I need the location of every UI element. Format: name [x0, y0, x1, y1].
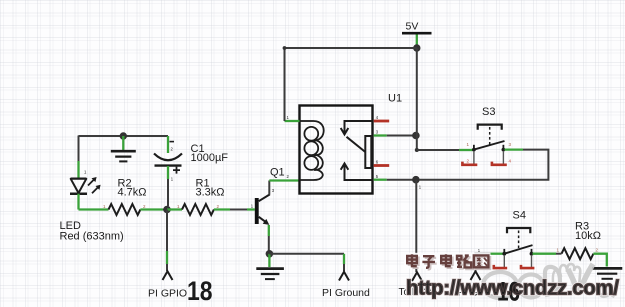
S4 unused red pin right: [521, 255, 534, 268]
node C junction dot: [412, 132, 420, 140]
relay pin number specks: [84, 115, 481, 253]
relay U1 NO contact arrow: [341, 163, 373, 180]
relay U1 NC contact arrow: [341, 121, 373, 134]
svg-text:4.7kΩ: 4.7kΩ: [118, 187, 147, 199]
ground G3: [592, 268, 622, 278]
LED D1: [70, 177, 101, 194]
wire relay common top to node C: [387, 135, 413, 137]
ground G1 stub: [122, 136, 124, 150]
capacitor C1: [154, 142, 182, 174]
wire C1 top: [167, 136, 169, 153]
S4 label: [513, 209, 526, 221]
watermark CJK text 电子电路网: [407, 254, 488, 268]
R1 label: [196, 178, 225, 199]
pin To Pi 3V: [412, 272, 422, 281]
R1 pin numbers: [177, 204, 220, 209]
svg-text:1: 1: [103, 204, 106, 209]
wire node D to To Pi 3V pin: [415, 180, 417, 272]
switch S3: [472, 125, 505, 152]
svg-text:1: 1: [287, 115, 290, 120]
resistor R1: [182, 204, 214, 215]
node dot top rail / ground junction: [120, 132, 127, 139]
watermark URL http://www.cndzz.com/: [406, 277, 619, 300]
S3 label: [482, 106, 495, 118]
relay pin red stub NO: [374, 164, 390, 167]
svg-text:1: 1: [478, 248, 481, 253]
svg-text:1: 1: [251, 204, 254, 209]
wire C1 bottom: [167, 166, 169, 206]
PI GPIO 18 labels: [148, 276, 213, 306]
svg-text:Q1: Q1: [270, 167, 285, 179]
svg-text:1: 1: [467, 142, 470, 147]
svg-text:1000µF: 1000µF: [191, 152, 229, 164]
R2 pin numbers: [103, 204, 146, 209]
svg-text:1: 1: [557, 248, 560, 253]
wire relay common bottom to node D: [387, 179, 413, 181]
svg-text:http://www.cndzz.com/: http://www.cndzz.com/: [406, 277, 619, 300]
LED label: [60, 220, 124, 243]
wire S3 right return loop: [419, 150, 548, 180]
ground G1: [111, 151, 136, 161]
watermark gray hand logo: [483, 264, 617, 298]
relay pin red stub NC: [374, 120, 390, 123]
R3 pin numbers: [557, 248, 599, 253]
svg-text:PI GPIO: PI GPIO: [148, 288, 187, 300]
svg-text:Red (633nm): Red (633nm): [60, 231, 124, 243]
svg-text:1: 1: [171, 177, 174, 182]
wire node B to PI Ground pin: [269, 254, 344, 271]
node A junction dot: [163, 206, 171, 214]
svg-text:18: 18: [187, 276, 213, 306]
svg-text:4: 4: [509, 159, 512, 164]
svg-text:1: 1: [177, 204, 180, 209]
wire LED anode vertical: [78, 136, 80, 179]
PI GPIO 16 labels: [458, 277, 521, 307]
svg-text:2: 2: [217, 204, 220, 209]
node D junction dot: [412, 176, 420, 184]
wire node C to S3 bend: [415, 136, 473, 153]
wire S4 left to GPIO16 pin: [476, 254, 504, 272]
wire 5V down to node C: [416, 48, 418, 136]
svg-text:6: 6: [376, 160, 379, 165]
wire top-left rail from LED to C1: [79, 135, 169, 137]
wire R1 to Q1 base: [214, 208, 255, 210]
svg-text:PI Ground: PI Ground: [322, 287, 370, 299]
wire LED to R2: [79, 208, 109, 210]
S4 unused red pin left: [494, 255, 507, 268]
relay U1 label: [388, 93, 402, 105]
R3 label: [575, 221, 601, 243]
relay pin green stub coil top: [285, 120, 300, 122]
wire LED cathode vertical: [77, 194, 79, 210]
R2 label: [118, 178, 147, 199]
relay pin green stub common top: [374, 134, 387, 136]
svg-text:2: 2: [467, 159, 470, 164]
wire R2 to node A: [140, 208, 167, 210]
ground G2: [256, 269, 284, 280]
svg-text:5: 5: [376, 174, 379, 179]
svg-text:1: 1: [419, 185, 422, 190]
wire node A to PI GPIO pin: [166, 210, 168, 272]
svg-text:3: 3: [272, 188, 275, 193]
watermark CJK text 电子电路网 shadow: [409, 256, 490, 270]
C1 label: [191, 143, 229, 164]
pin PI Ground: [339, 272, 349, 281]
ground G2 stub: [268, 254, 270, 267]
svg-text:3: 3: [376, 130, 379, 135]
relay U1 armature: [347, 136, 372, 168]
To Pi 3V label: [399, 287, 437, 298]
svg-text:5V: 5V: [406, 20, 419, 32]
S3 pin numbers: [467, 142, 512, 164]
wire node A to R1: [167, 208, 182, 210]
wire 5V stub: [416, 35, 418, 47]
Q1 label: [270, 167, 285, 179]
S3 unused red pin right: [492, 151, 507, 165]
supply 5V symbol: [402, 20, 432, 33]
wire Q1 emitter: [268, 225, 270, 254]
wire S4 right to R3: [533, 253, 557, 255]
resistor R3: [556, 248, 593, 259]
relay U1 coil: [300, 121, 324, 180]
pin PI GPIO 16: [471, 271, 481, 280]
wire 5V rail left and down to coil: [283, 46, 417, 121]
pin PI GPIO 18: [163, 271, 173, 280]
svg-text:10kΩ: 10kΩ: [575, 230, 601, 242]
switch S4: [502, 228, 533, 256]
svg-text:3: 3: [509, 142, 512, 147]
svg-text:2: 2: [143, 204, 146, 209]
svg-text:U1: U1: [388, 93, 402, 105]
svg-text:S3: S3: [482, 106, 495, 118]
resistor R2: [109, 204, 141, 215]
svg-text:1: 1: [84, 170, 87, 175]
svg-text:2: 2: [596, 248, 599, 253]
node 5V junction dot: [413, 44, 420, 51]
wire Q1 collector: [269, 181, 299, 195]
node B junction dot: [266, 250, 274, 258]
svg-text:4: 4: [376, 115, 379, 120]
watermark CJK text backing: [404, 253, 491, 269]
svg-text:2: 2: [171, 147, 174, 152]
relay U1 box: [300, 106, 373, 194]
PI Ground label: [322, 287, 370, 299]
wire R3 to ground G3: [593, 254, 606, 267]
svg-text:3.3kΩ: 3.3kΩ: [196, 187, 225, 199]
svg-text:2: 2: [287, 174, 290, 179]
transistor Q1: [255, 194, 270, 225]
S3 unused red pin left: [462, 151, 477, 165]
relay pin green stub common bottom: [374, 179, 387, 181]
svg-text:S4: S4: [513, 209, 526, 221]
